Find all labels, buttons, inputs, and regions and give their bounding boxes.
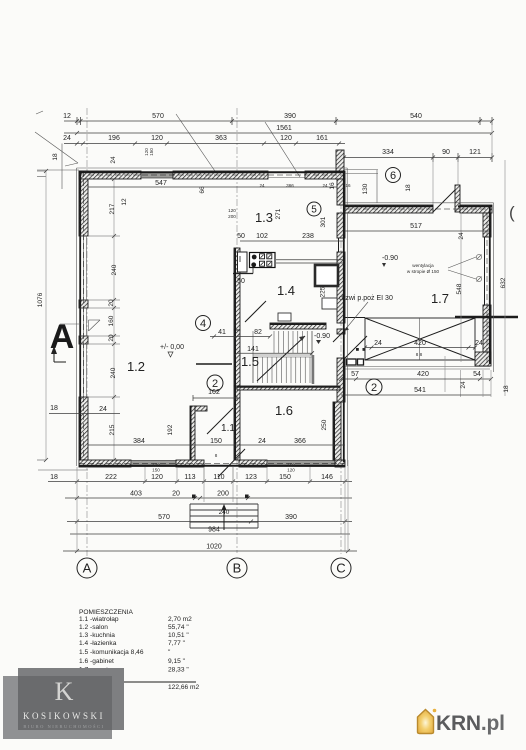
svg-text:420: 420	[414, 340, 426, 347]
svg-text:120: 120	[151, 474, 163, 481]
svg-text:-0.90: -0.90	[382, 255, 398, 262]
svg-text:20: 20	[172, 491, 180, 498]
svg-text:1.7: 1.7	[431, 291, 449, 306]
svg-text:540: 540	[410, 113, 422, 120]
svg-text:1.2: 1.2	[127, 359, 145, 374]
svg-text:548: 548	[456, 283, 463, 294]
svg-text:9,15 ": 9,15 "	[168, 658, 186, 665]
svg-text:12: 12	[63, 113, 71, 120]
svg-text:24: 24	[475, 340, 483, 347]
svg-text:146: 146	[321, 474, 333, 481]
svg-text:(: (	[509, 203, 515, 222]
svg-text:123: 123	[245, 474, 257, 481]
svg-text:24: 24	[99, 406, 107, 413]
svg-text:55,74 ": 55,74 "	[168, 624, 189, 631]
svg-text:363: 363	[215, 135, 227, 142]
svg-text:517: 517	[410, 223, 422, 230]
svg-text:18: 18	[503, 385, 510, 393]
svg-text:390: 390	[284, 113, 296, 120]
svg-text:1020: 1020	[206, 544, 222, 551]
svg-text:250: 250	[321, 419, 328, 430]
svg-text:50: 50	[237, 233, 245, 240]
svg-text:1.4 -łazienka: 1.4 -łazienka	[79, 640, 117, 647]
svg-text:18: 18	[50, 474, 58, 481]
svg-text:102: 102	[256, 233, 268, 240]
svg-text:366: 366	[294, 438, 306, 445]
svg-text:82: 82	[254, 329, 262, 336]
svg-text:57: 57	[351, 371, 359, 378]
svg-text:238: 238	[302, 233, 314, 240]
svg-text:200: 200	[217, 491, 229, 498]
svg-text:1.3: 1.3	[255, 210, 273, 225]
svg-text:390: 390	[285, 514, 297, 521]
svg-text:570: 570	[158, 514, 170, 521]
svg-text:24: 24	[258, 438, 266, 445]
svg-text:54: 54	[473, 371, 481, 378]
svg-text:150: 150	[279, 474, 291, 481]
svg-text:24: 24	[458, 232, 465, 240]
svg-text:A: A	[83, 561, 92, 576]
svg-text:122,66 m2: 122,66 m2	[168, 684, 199, 691]
svg-text:18: 18	[405, 184, 412, 192]
svg-text:196: 196	[108, 135, 120, 142]
svg-text:1561: 1561	[276, 125, 292, 132]
svg-text:+/- 0,00: +/- 0,00	[160, 344, 184, 351]
svg-text:1.4: 1.4	[277, 283, 295, 298]
svg-text:192: 192	[167, 424, 174, 435]
svg-text:120: 120	[151, 135, 163, 142]
svg-text:110: 110	[213, 474, 224, 481]
svg-text:1076: 1076	[37, 292, 44, 307]
svg-text:215: 215	[109, 424, 116, 435]
svg-text:20: 20	[108, 299, 115, 307]
svg-text:162: 162	[208, 389, 220, 396]
svg-text:240: 240	[111, 264, 118, 275]
svg-text:28,33 ": 28,33 "	[168, 667, 189, 674]
svg-text:113: 113	[184, 474, 195, 481]
svg-text:24: 24	[322, 183, 328, 188]
svg-text:150: 150	[210, 438, 222, 445]
svg-text:240: 240	[219, 509, 230, 516]
svg-text:420: 420	[417, 371, 429, 378]
svg-text:24: 24	[374, 340, 382, 347]
svg-text:120: 120	[287, 468, 295, 473]
svg-text:18: 18	[52, 153, 59, 161]
svg-text:w stropie Ø 150: w stropie Ø 150	[407, 269, 440, 274]
svg-text:547: 547	[155, 180, 167, 187]
svg-text:18: 18	[50, 405, 58, 412]
svg-text:222: 222	[105, 474, 117, 481]
svg-text:1.5 -komunikacja 8,46: 1.5 -komunikacja 8,46	[79, 649, 144, 656]
svg-text:7,77 ": 7,77 "	[168, 640, 186, 647]
svg-text:16: 16	[345, 183, 351, 188]
svg-text:150: 150	[149, 148, 154, 156]
svg-text:1.1: 1.1	[221, 423, 235, 434]
svg-text:KRN.pl: KRN.pl	[436, 712, 505, 735]
svg-text:B: B	[233, 561, 242, 576]
svg-text:240: 240	[110, 367, 117, 378]
svg-text:24: 24	[259, 183, 265, 188]
svg-text:drzwi p.poż EI 30: drzwi p.poż EI 30	[339, 295, 393, 302]
svg-text:1.5: 1.5	[241, 354, 259, 369]
svg-text:1.3 -kuchnia: 1.3 -kuchnia	[79, 632, 115, 639]
svg-text:wentylacja: wentylacja	[412, 263, 434, 268]
svg-text:2,70 m2: 2,70 m2	[168, 616, 192, 623]
svg-text:130: 130	[362, 183, 369, 194]
svg-text:217: 217	[109, 203, 116, 214]
svg-text:384: 384	[133, 438, 145, 445]
svg-text:225: 225	[320, 286, 327, 297]
svg-text:50: 50	[237, 278, 245, 285]
svg-text:24: 24	[110, 156, 117, 164]
svg-text:": "	[168, 649, 171, 656]
svg-text:1.1 -wiatrołap: 1.1 -wiatrołap	[79, 616, 119, 623]
svg-text:366: 366	[286, 183, 294, 188]
svg-text:5: 5	[311, 205, 317, 216]
svg-text:10,51 ": 10,51 "	[168, 632, 189, 639]
svg-text:120: 120	[228, 208, 236, 213]
svg-text:POMIESZCZENIA: POMIESZCZENIA	[79, 609, 133, 616]
svg-text:24: 24	[63, 135, 71, 142]
svg-text:8 8: 8 8	[416, 352, 423, 357]
svg-text:KOSIKOWSKI: KOSIKOWSKI	[23, 711, 105, 721]
svg-text:12: 12	[121, 198, 128, 206]
svg-text:150: 150	[152, 468, 160, 473]
svg-text:1.2 -salon: 1.2 -salon	[79, 624, 108, 631]
svg-text:24: 24	[460, 381, 467, 389]
svg-text:541: 541	[414, 387, 426, 394]
svg-text:334: 334	[382, 149, 394, 156]
svg-text:120: 120	[280, 135, 292, 142]
svg-text:141: 141	[247, 346, 259, 353]
svg-text:K: K	[55, 677, 74, 706]
svg-text:403: 403	[130, 491, 142, 498]
svg-text:1.6: 1.6	[275, 403, 293, 418]
svg-text:20: 20	[108, 334, 115, 342]
svg-text:570: 570	[152, 113, 164, 120]
svg-text:121: 121	[469, 149, 481, 156]
svg-text:8: 8	[215, 453, 218, 458]
svg-text:161: 161	[316, 135, 328, 142]
svg-text:4: 4	[200, 318, 206, 330]
svg-text:160: 160	[108, 315, 115, 326]
svg-text:90: 90	[442, 149, 450, 156]
svg-text:2: 2	[371, 382, 377, 394]
svg-text:632: 632	[500, 277, 507, 288]
svg-text:-0.90: -0.90	[314, 333, 330, 340]
svg-text:C: C	[336, 561, 345, 576]
svg-text:6: 6	[390, 170, 396, 182]
svg-text:BIURO NIERUCHOMOŚCI: BIURO NIERUCHOMOŚCI	[23, 724, 104, 729]
svg-text:301: 301	[320, 216, 327, 227]
svg-text:271: 271	[275, 208, 282, 219]
svg-text:41: 41	[218, 329, 226, 336]
svg-text:200: 200	[228, 214, 236, 219]
svg-text:16: 16	[329, 182, 336, 190]
svg-text:1.6 -gabinet: 1.6 -gabinet	[79, 658, 114, 665]
